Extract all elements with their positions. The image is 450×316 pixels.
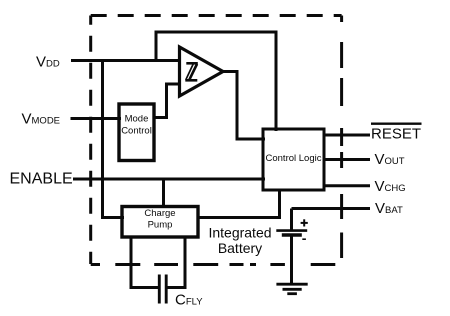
wire battery positive lead [290,209,293,230]
wire RESET pin [324,134,370,137]
wire VCHG pin [324,184,370,187]
wire VOUT pin [324,158,370,161]
wire charge pump to control logic bottom [198,190,280,218]
battery minus sign [302,238,306,240]
wire VBAT pin [292,207,371,210]
wire charge pump bottom right leg [184,237,187,288]
wire mode control to op-amp inverting input [154,84,180,118]
wire CFLY left lead [130,286,159,289]
wire ENABLE pin to control logic [73,178,265,181]
svg-text:Pump: Pump [148,219,173,230]
svg-text:Control Logic: Control Logic [266,153,322,164]
wire VDD pin [71,59,181,62]
wire VDD branch up over to control logic top [156,32,276,131]
svg-text:Integrated: Integrated [208,225,271,241]
IC boundary dashed box [91,16,342,265]
wire charge pump bottom left leg [130,237,133,288]
svg-text:Control: Control [121,126,152,137]
op-amp U1 comparator triangle [180,47,224,96]
wire CFLY right lead [167,286,186,289]
control logic block [263,129,324,190]
ground symbol [276,284,307,294]
mode control block [119,104,154,161]
svg-text:Mode: Mode [125,114,149,125]
RESET overline [371,122,422,124]
svg-text:Battery: Battery [218,240,262,256]
svg-text:ENABLE: ENABLE [10,171,73,188]
wire battery negative lead to ground [290,236,293,285]
wire op-amp output to control logic [221,72,265,140]
charge pump block [122,207,198,238]
capacitor CFLY plates [159,275,166,304]
battery plus sign [301,219,308,226]
wire VDD branch down to charge pump [103,61,125,218]
battery BT1 integrated battery symbol [276,231,307,235]
wire VMODE pin [71,117,122,120]
svg-text:Charge: Charge [144,208,175,219]
hysteresis symbol inside op-amp [185,63,198,80]
svg-text:RESET: RESET [371,125,421,142]
wire ENABLE branch down to charge pump top [162,179,165,208]
